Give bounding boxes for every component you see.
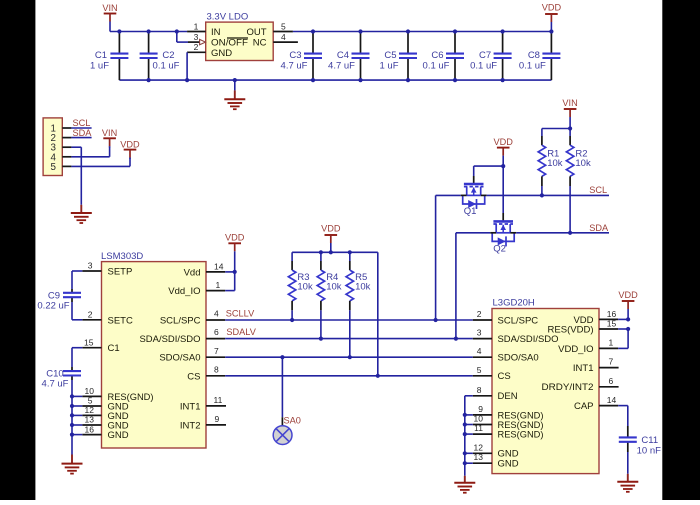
svg-text:7: 7: [214, 346, 219, 356]
IC U2 LSM303D: [102, 262, 207, 448]
capacitor C4: [360, 32, 362, 54]
svg-text:6: 6: [609, 376, 614, 386]
svg-text:4.7 uF: 4.7 uF: [328, 61, 355, 72]
pin 7 INT1 stub: [599, 367, 619, 369]
svg-text:GND: GND: [211, 48, 232, 59]
svg-text:9: 9: [478, 404, 483, 414]
svg-text:12: 12: [474, 442, 484, 452]
svg-text:10 nF: 10 nF: [637, 445, 661, 456]
svg-text:C1: C1: [108, 343, 120, 354]
regulator U1 3.3V LDO: [206, 22, 274, 60]
pin 6 DRDY/INT2 stub: [599, 386, 619, 388]
svg-text:Q1: Q1: [464, 206, 477, 217]
capacitor C5: [407, 32, 409, 54]
svg-text:INT2: INT2: [180, 420, 201, 431]
svg-text:4.7 uF: 4.7 uF: [281, 61, 308, 72]
svg-text:1: 1: [216, 280, 221, 290]
svg-text:Q2: Q2: [493, 243, 506, 254]
ground at LSM303D: [71, 455, 73, 464]
svg-text:SDO/SA0: SDO/SA0: [498, 353, 539, 364]
pin 5 OUT: [273, 31, 293, 33]
svg-text:CS: CS: [187, 371, 200, 382]
svg-text:4: 4: [477, 346, 482, 356]
resistor R4: [320, 252, 322, 261]
pin 1 Vdd_IO: [206, 290, 225, 292]
svg-text:C1: C1: [95, 50, 107, 61]
svg-text:5: 5: [50, 162, 56, 173]
ground at C11: [627, 474, 629, 482]
svg-text:VDD: VDD: [225, 233, 245, 243]
pin 14 Vdd: [206, 271, 225, 273]
pin 5 VDD wire: [62, 165, 71, 167]
svg-text:INT1: INT1: [573, 363, 594, 374]
svg-text:1: 1: [609, 337, 614, 347]
svg-text:VIN: VIN: [102, 128, 117, 138]
capacitor C7: [502, 32, 504, 54]
ground at connector: [80, 205, 82, 213]
svg-text:VDD_IO: VDD_IO: [558, 344, 593, 355]
svg-text:0.1 uF: 0.1 uF: [519, 61, 546, 72]
svg-text:3: 3: [88, 261, 93, 271]
svg-text:C5: C5: [384, 50, 396, 61]
svg-text:VIN: VIN: [562, 98, 577, 108]
IC U3 L3GD20H: [492, 309, 599, 474]
svg-text:LSM303D: LSM303D: [101, 251, 143, 262]
svg-text:9: 9: [215, 414, 220, 424]
svg-text:SDALV: SDALV: [226, 327, 256, 337]
pin 7 SDO/SA0: [206, 356, 225, 358]
capacitor C1: [118, 32, 120, 54]
pin 6 SDA/SDI/SDO net SDALV: [206, 338, 225, 340]
svg-text:VDD: VDD: [618, 290, 638, 300]
svg-text:SCL/SPC: SCL/SPC: [160, 316, 201, 327]
svg-text:12: 12: [85, 405, 95, 415]
svg-text:C8: C8: [528, 50, 540, 61]
wire SCL row: [436, 194, 461, 196]
svg-text:1 uF: 1 uF: [379, 61, 398, 72]
svg-text:4: 4: [214, 309, 219, 319]
svg-text:SCL/SPC: SCL/SPC: [498, 315, 539, 326]
pin 5 GND: [82, 405, 101, 407]
svg-text:VDD: VDD: [120, 139, 140, 149]
pin 11 INT1 stub: [206, 405, 226, 407]
svg-text:6: 6: [214, 327, 219, 337]
pin 12 GND: [82, 414, 101, 416]
svg-text:INT1: INT1: [180, 401, 201, 412]
svg-text:C4: C4: [337, 50, 349, 61]
svg-text:DEN: DEN: [498, 391, 518, 402]
svg-text:8: 8: [477, 385, 482, 395]
resistor R1: [541, 129, 543, 137]
pin 3 SETP: [82, 270, 101, 272]
pin 4 NC stub: [273, 41, 298, 43]
wire top rail right: [293, 31, 552, 33]
svg-text:RES(GND): RES(GND): [498, 430, 544, 441]
svg-text:5: 5: [477, 365, 482, 375]
pin 16 GND: [82, 434, 101, 436]
svg-text:C3: C3: [289, 50, 301, 61]
svg-text:16: 16: [607, 309, 617, 319]
svg-text:L3GD20H: L3GD20H: [493, 298, 535, 309]
capacitor C10: [71, 348, 73, 367]
pin 2 SCL/SPC: [473, 319, 492, 321]
pin 4 SCL/SPC net SCLLV: [206, 319, 225, 321]
pin 13 gnd: [473, 462, 492, 464]
svg-text:0.1 uF: 0.1 uF: [153, 61, 180, 72]
svg-text:10k: 10k: [547, 158, 563, 169]
pin 14 CAP: [599, 405, 618, 407]
svg-text:VDD: VDD: [493, 137, 513, 147]
svg-text:VDD: VDD: [321, 224, 341, 234]
svg-text:8: 8: [214, 365, 219, 375]
svg-text:Vdd: Vdd: [184, 267, 201, 278]
svg-text:VDD: VDD: [542, 3, 562, 13]
svg-text:SCLLV: SCLLV: [226, 309, 255, 319]
svg-text:16: 16: [85, 424, 95, 434]
capacitor C9: [71, 271, 73, 289]
svg-text:13: 13: [85, 415, 95, 425]
svg-text:2: 2: [88, 310, 93, 320]
svg-text:DRDY/INT2: DRDY/INT2: [542, 382, 594, 393]
svg-text:OUT: OUT: [246, 27, 266, 38]
pin 16 VDD: [599, 318, 618, 320]
pin 1 IN: [187, 31, 206, 33]
wire pin2 gnd drop: [186, 52, 188, 80]
svg-text:NC: NC: [253, 37, 267, 48]
svg-text:10k: 10k: [297, 281, 313, 292]
capacitor C11: [627, 406, 629, 426]
svg-text:1 uF: 1 uF: [90, 61, 109, 72]
svg-text:C7: C7: [479, 50, 491, 61]
wire Q2 gate: [502, 166, 504, 213]
resistor R2: [569, 129, 571, 137]
pin 9 INT2 stub: [206, 424, 226, 426]
svg-text:SETC: SETC: [108, 315, 133, 326]
ground at LDO: [233, 78, 237, 82]
ground at L3GD20H: [464, 476, 466, 483]
svg-text:10k: 10k: [355, 281, 371, 292]
svg-text:SDA: SDA: [73, 128, 93, 138]
connector JP1: [43, 118, 62, 176]
svg-text:10: 10: [474, 414, 484, 424]
wire Q1 gate: [474, 165, 504, 167]
pin 1 VDD_IO: [599, 347, 618, 349]
svg-text:GND: GND: [108, 430, 129, 441]
svg-text:RES(VDD): RES(VDD): [548, 324, 594, 335]
svg-text:0.22 uF: 0.22 uF: [37, 301, 69, 312]
wire top rail left: [110, 31, 187, 33]
wire pullup rail: [292, 251, 378, 253]
svg-text:14: 14: [607, 395, 617, 405]
pin 3 SDA/SDI/SDO: [473, 338, 492, 340]
svg-text:SA0: SA0: [284, 415, 301, 425]
resistor R3: [291, 252, 293, 261]
pin 9 gnd: [473, 414, 492, 416]
svg-text:C2: C2: [162, 50, 174, 61]
svg-text:0.1 uF: 0.1 uF: [423, 61, 450, 72]
svg-text:15: 15: [84, 337, 94, 347]
svg-text:4.7 uF: 4.7 uF: [42, 379, 69, 390]
wire SDALV row: [225, 338, 473, 340]
pin 13 GND: [82, 424, 101, 426]
svg-text:SDA/SDI/SDO: SDA/SDI/SDO: [140, 334, 201, 345]
wire SDALV drop: [455, 233, 457, 339]
pin 15 C1: [82, 347, 101, 349]
wire SDO row: [225, 356, 473, 358]
wire SCLLV row: [225, 319, 473, 321]
svg-text:SDA/SDI/SDO: SDA/SDI/SDO: [498, 334, 559, 345]
svg-text:3: 3: [477, 328, 482, 338]
svg-text:SCL: SCL: [73, 118, 91, 128]
pin 10 RES(GND): [82, 395, 101, 397]
svg-text:7: 7: [609, 357, 614, 367]
svg-text:10k: 10k: [326, 281, 342, 292]
svg-text:VIN: VIN: [102, 3, 117, 13]
wire SDA row: [456, 232, 490, 234]
svg-text:Vdd_IO: Vdd_IO: [168, 286, 200, 297]
svg-text:SETP: SETP: [108, 267, 133, 278]
pin 2 SETC: [82, 319, 101, 321]
svg-text:GND: GND: [498, 459, 519, 470]
pin 1 SCL stub: [62, 127, 71, 129]
capacitor C2: [148, 32, 150, 54]
pin 4 VIN wire: [62, 156, 71, 158]
pin 8 DEN: [473, 395, 492, 397]
svg-text:2: 2: [477, 309, 482, 319]
svg-text:11: 11: [214, 395, 223, 405]
wire VDD to CS: [377, 252, 379, 375]
pin 5 CS: [473, 375, 492, 377]
pin 3 GND wire: [62, 146, 71, 148]
pin 3 ON/OFF with inverted marker: [188, 41, 200, 43]
svg-text:0.1 uF: 0.1 uF: [470, 61, 497, 72]
capacitor C3: [312, 32, 314, 54]
svg-text:C6: C6: [431, 50, 443, 61]
svg-text:CAP: CAP: [574, 401, 594, 412]
svg-text:14: 14: [214, 261, 224, 271]
capacitor C6: [454, 32, 456, 54]
svg-text:CS: CS: [498, 371, 511, 382]
wire CS row: [225, 375, 473, 377]
wire DEN gnd bus: [464, 396, 466, 476]
svg-text:2: 2: [194, 42, 199, 52]
transistor Q2: [493, 220, 513, 223]
pin 4 SDO/SA0: [473, 356, 492, 358]
jumper SA0: [280, 355, 284, 359]
pin 15 RES(VDD): [599, 328, 618, 330]
svg-text:10: 10: [85, 386, 95, 396]
resistor R5: [349, 252, 351, 261]
svg-text:SDO/SA0: SDO/SA0: [159, 353, 200, 364]
svg-text:5: 5: [281, 21, 286, 31]
wire R1 branch: [542, 128, 570, 130]
svg-text:11: 11: [474, 423, 483, 433]
pin 10 gnd: [473, 424, 492, 426]
pin 8 CS: [206, 375, 225, 377]
pin 11 gnd: [473, 433, 492, 435]
wire branch to pin 3: [175, 29, 179, 33]
wire bottom rail: [119, 79, 551, 81]
pin 12 gnd: [473, 452, 492, 454]
svg-text:13: 13: [474, 452, 484, 462]
transistor Q1: [464, 183, 484, 186]
svg-text:3: 3: [194, 32, 199, 42]
svg-text:10k: 10k: [575, 158, 591, 169]
svg-text:3.3V LDO: 3.3V LDO: [207, 12, 249, 23]
svg-text:SCL: SCL: [589, 185, 607, 195]
pin 2 SDA stub: [62, 137, 71, 139]
svg-text:1: 1: [194, 21, 199, 31]
svg-text:IN: IN: [211, 27, 221, 38]
svg-text:4: 4: [281, 32, 286, 42]
capacitor C8: [550, 32, 552, 54]
svg-text:SDA: SDA: [589, 223, 609, 233]
svg-text:15: 15: [607, 319, 617, 329]
wire SCLLV drop: [435, 195, 437, 320]
pin 2 GND: [187, 51, 206, 53]
